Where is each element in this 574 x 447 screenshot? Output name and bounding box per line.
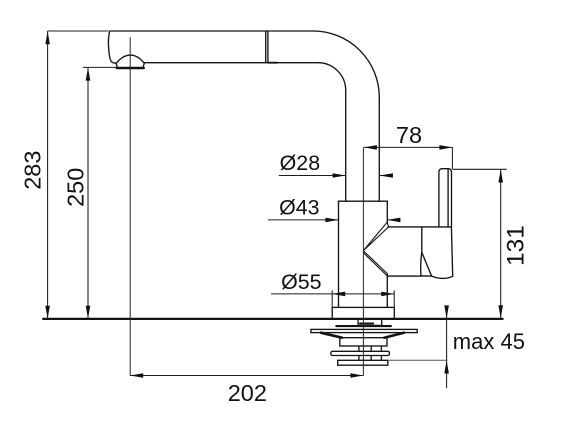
valve arm bottom line <box>388 275 422 277</box>
arrow O43 right <box>387 218 400 223</box>
arrow 131 up <box>498 170 503 183</box>
lock washer <box>331 351 390 355</box>
under-deck collar <box>358 319 382 326</box>
valve arm inner diagonal <box>422 252 432 276</box>
shank tube right line <box>380 346 382 360</box>
hose wedge upper <box>364 222 389 250</box>
centerline spout tip <box>129 37 131 375</box>
riser tube right edge <box>378 97 380 201</box>
dim O55 extension right <box>393 290 395 307</box>
svg-text:202: 202 <box>228 380 267 406</box>
arrow 202 right <box>350 373 363 378</box>
aerator skirt sides <box>116 63 144 67</box>
arrow 131 down <box>498 305 503 318</box>
dim 202 line <box>130 375 363 377</box>
base flange <box>332 307 394 319</box>
svg-text:Ø28: Ø28 <box>280 151 320 175</box>
spout tube top line <box>110 30 313 32</box>
dim 250 line <box>87 67 89 319</box>
valve arm inner curve <box>421 252 422 276</box>
dim 283 line <box>47 31 49 319</box>
dim 283 extension top <box>48 30 109 32</box>
dim 250 extension top <box>83 66 116 68</box>
svg-text:Ø55: Ø55 <box>281 270 321 294</box>
dim O43 right arrow tail <box>387 219 400 221</box>
spout joint bottom mark <box>268 62 277 64</box>
dim O28 leader <box>279 175 346 177</box>
riser tube left edge <box>345 90 347 201</box>
dim max45 bottom extension <box>389 359 448 361</box>
centerline faucet body <box>362 147 364 375</box>
arrow 250 down <box>86 306 91 319</box>
spreader right wedge <box>384 333 404 338</box>
arrow 283 up <box>45 31 50 44</box>
arrow O28 left <box>333 173 346 178</box>
elbow inner arc <box>318 63 346 91</box>
mounting nut plate <box>338 360 388 365</box>
aerator dome <box>116 55 144 63</box>
shank tube left line <box>358 346 360 360</box>
arrow 78 right <box>439 145 452 150</box>
spout joint line right <box>267 31 269 63</box>
dim O55 extension left <box>331 290 333 307</box>
body right edge lower <box>386 276 388 307</box>
dim 131 line <box>500 169 502 318</box>
arrow 250 up <box>86 68 91 81</box>
arrow 283 down <box>45 306 50 319</box>
arrow O55 left <box>332 292 345 297</box>
body right edge upper <box>386 201 388 222</box>
spout joint line left <box>265 31 267 63</box>
handle lever outline <box>439 169 452 227</box>
dim 78 line <box>364 146 453 148</box>
deck line <box>43 318 502 320</box>
collar inner band <box>360 323 373 325</box>
arrow max45 down <box>444 305 449 318</box>
svg-text:131: 131 <box>503 225 530 266</box>
arrow O43 left <box>325 218 338 223</box>
aerator bottom band <box>117 67 144 69</box>
valve arm bottom dip <box>422 276 453 279</box>
valve arm inner vertical <box>421 227 423 252</box>
dim 131 top extension <box>452 168 506 170</box>
elbow outer arc <box>313 31 379 97</box>
svg-text:Ø43: Ø43 <box>279 196 319 220</box>
arrow 78 left <box>364 145 377 150</box>
svg-text:283: 283 <box>20 151 46 190</box>
dim O55 leader and line <box>271 293 394 295</box>
dim 78 right extension <box>451 147 453 169</box>
body top edge <box>339 200 388 202</box>
arrow O55 right <box>381 292 394 297</box>
handle lever inner line <box>447 169 449 227</box>
svg-text:250: 250 <box>63 168 89 207</box>
hose wedge lower <box>364 251 388 276</box>
spreader hub <box>340 338 387 346</box>
arrow O28 right <box>380 173 393 178</box>
valve arm top edge <box>388 226 451 228</box>
spout tube bottom line <box>144 62 318 64</box>
dim O43 leader <box>268 219 338 221</box>
gasket thick line <box>336 325 391 327</box>
spreader plate <box>311 329 417 332</box>
svg-text:max 45: max 45 <box>453 329 525 354</box>
spreader left wedge <box>321 333 342 338</box>
arrow 202 left <box>130 373 143 378</box>
dim max45 line <box>446 306 448 388</box>
valve arm right edge <box>451 227 452 276</box>
shank inner line <box>370 346 372 360</box>
dim O28 right arrow tail <box>380 175 393 177</box>
arrow max45 up <box>444 361 449 374</box>
body left edge <box>338 201 340 307</box>
spout end cap <box>108 31 116 63</box>
svg-text:78: 78 <box>396 122 422 148</box>
